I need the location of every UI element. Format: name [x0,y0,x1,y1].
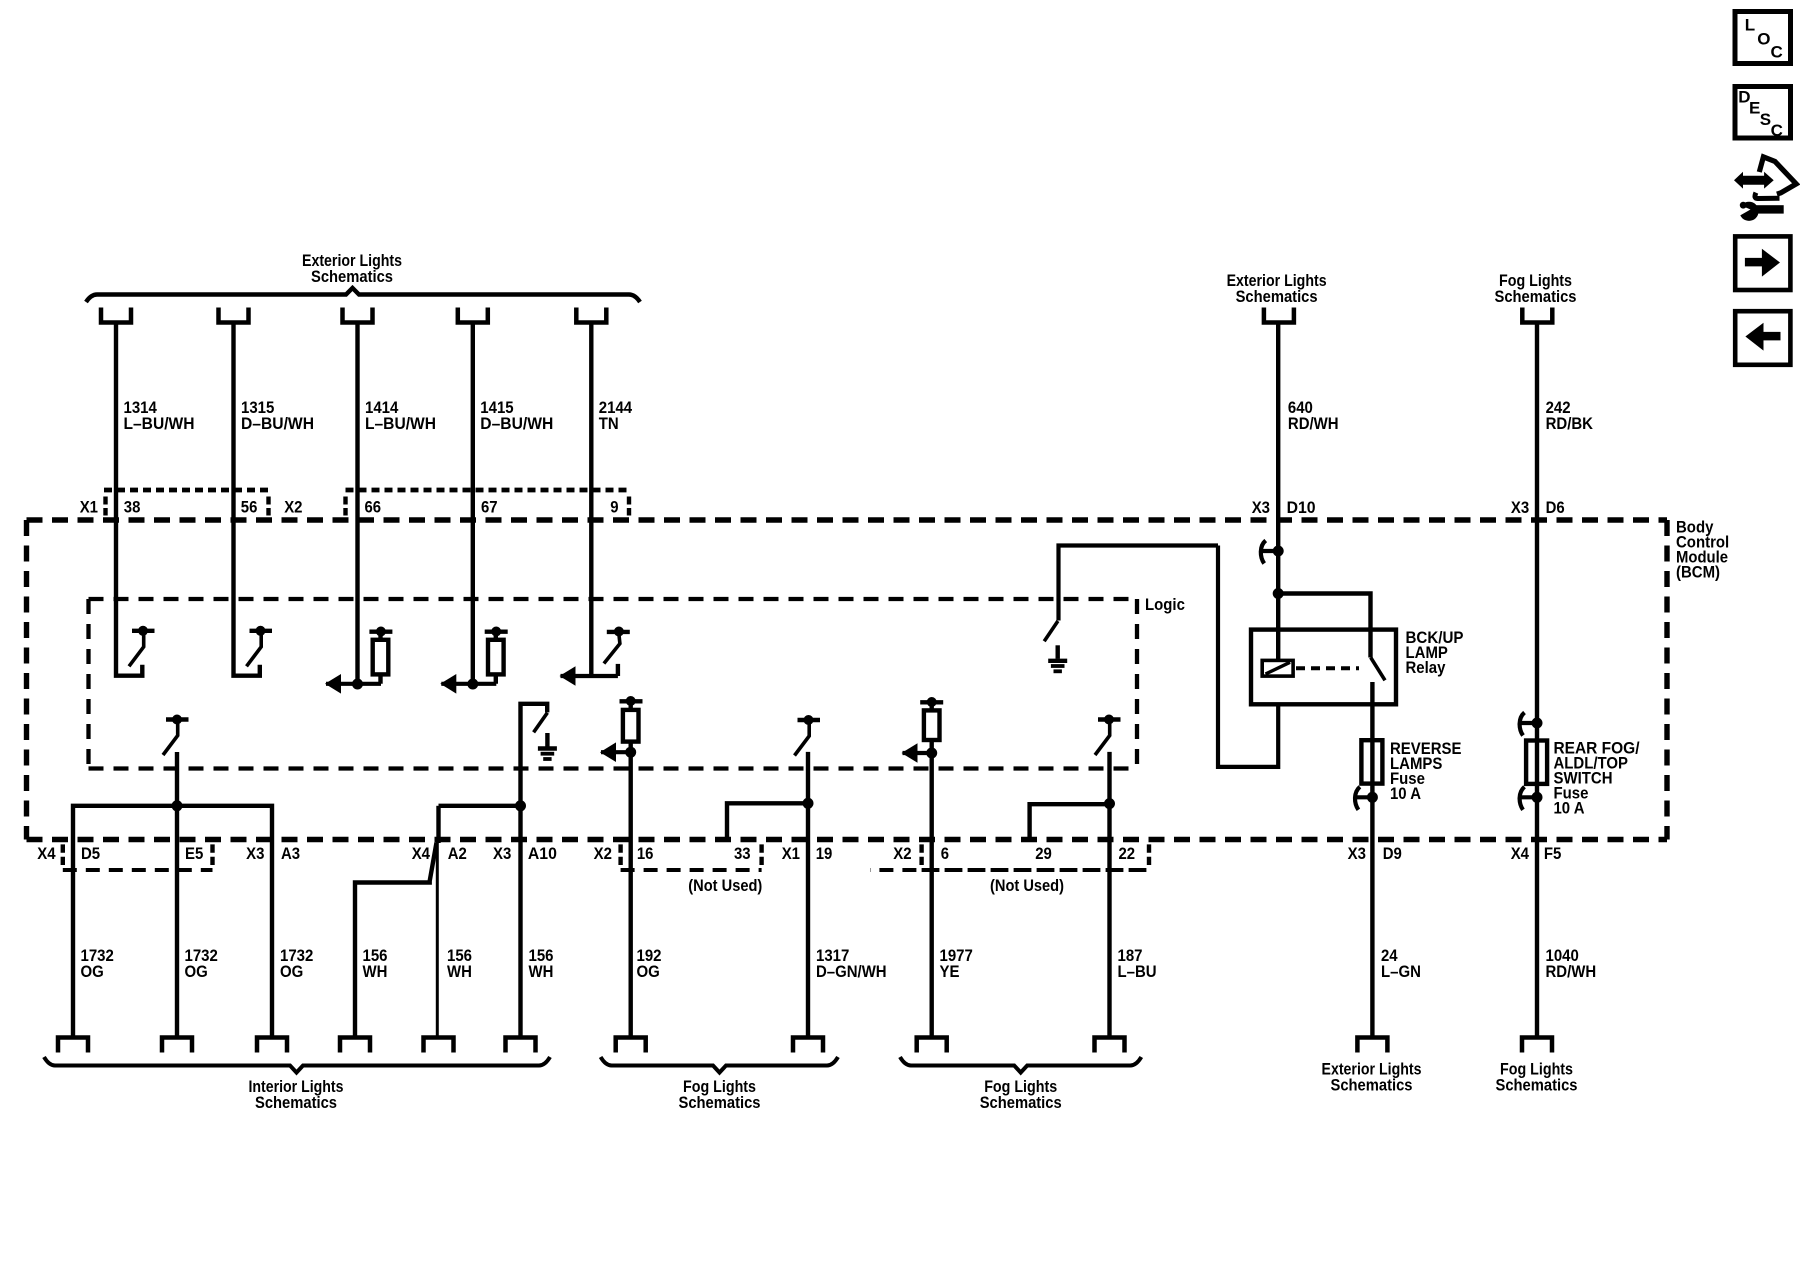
connector Fog A1 [616,1038,646,1053]
relay K1 switch blade [1371,658,1385,705]
svg-text:56: 56 [241,498,258,517]
svg-text:D5: D5 [81,844,100,863]
connector Fog B1 [917,1038,947,1053]
svg-text:D–BU/WH: D–BU/WH [241,414,314,433]
pin labels bottom row [37,844,1135,863]
label 24 L-GN [1381,946,1421,981]
switch S6 (pin 22) [1095,715,1121,755]
svg-text:WH: WH [529,962,554,981]
connector X2 dotted box (pins 66,67,9) [346,490,630,516]
svg-text:L–BU/WH: L–BU/WH [124,414,195,433]
wire relay coil return loop [1218,546,1278,767]
connector pin 242 [1522,308,1552,323]
label 1314 L-BU/WH [124,398,195,433]
wire 640 RD/WH [1276,325,1280,661]
svg-text:Schematics: Schematics [980,1093,1062,1112]
svg-text:X2: X2 [893,844,911,863]
relay K1 BCK/UP LAMP box [1251,630,1396,705]
svg-text:Relay: Relay [1406,658,1446,677]
relay K1 coil [1262,660,1293,676]
svg-text:X3: X3 [1511,498,1529,517]
label 1040 RD/WH [1546,946,1597,981]
svg-text:(Not Used): (Not Used) [688,876,762,895]
svg-text:66: 66 [365,498,382,517]
Body Control Module dashed box [27,520,1668,840]
svg-text:X4: X4 [412,844,431,863]
wire bus D5 to A3 [73,806,272,1038]
label Body Control Module (BCM) [1676,518,1729,582]
svg-text:Schematics: Schematics [1331,1076,1413,1095]
Logic dashed box [89,599,1138,769]
pin labels X4 F5 [1511,844,1562,863]
wire 2144 TN [589,325,593,677]
icon LOC box [1735,12,1791,64]
brace top Exterior Lights [86,288,640,302]
resistor R1 with arrow (pin 66) [325,627,392,694]
wire pin 22 down to connector [1107,752,1111,1038]
connector Interior 2 [162,1038,192,1053]
wire pin A2 down [436,806,440,843]
svg-text:S: S [1760,110,1771,129]
wire jog A2 to 156 WH [355,843,437,1038]
svg-text:6: 6 [941,844,949,863]
inline connector C2 [1353,787,1377,810]
label 156 WH [363,946,388,981]
wire pin A10 with switch to ground [521,704,548,1038]
label REVERSE LAMPS Fuse 10 A [1390,739,1462,803]
connector pin 1315 [219,308,249,323]
wire relay to fuse [1370,704,1374,740]
svg-text:O: O [1757,30,1770,49]
svg-text:WH: WH [447,962,472,981]
connector X2 dotted box (pins 6,29,22) [870,844,1149,870]
svg-text:YE: YE [940,962,960,981]
label 1732 OG [81,946,114,981]
label Fog Lights Schematics 1 [679,1077,761,1112]
splice node pin 22 / pin 29 [1105,799,1115,809]
svg-text:22: 22 [1119,844,1136,863]
svg-text:X1: X1 [782,844,800,863]
label Fog Lights Schematics (bottom right) [1496,1060,1578,1095]
connector pin 2144 [576,308,606,323]
svg-text:L–BU/WH: L–BU/WH [365,414,436,433]
svg-text:TN: TN [599,414,619,433]
svg-text:A3: A3 [281,844,300,863]
splice node E5 bus [172,801,182,811]
svg-text:Logic: Logic [1145,595,1185,614]
pin labels X3 D9 [1348,844,1402,863]
icon right arrow box [1735,236,1790,290]
svg-text:29: 29 [1035,844,1052,863]
label 640 RD/WH [1288,398,1339,433]
switch S4 (pin E5) [163,715,189,755]
switch S1 (pin 38) [129,626,155,666]
svg-text:OG: OG [81,962,104,981]
wire stub pin 33 elbow [727,803,808,840]
svg-text:D9: D9 [1383,844,1402,863]
connector pin 1414 [343,308,373,323]
svg-text:A10: A10 [528,844,557,863]
svg-text:E5: E5 [185,844,203,863]
ground G2 (logic) [1048,645,1067,671]
label 1732 OG [185,946,218,981]
label Fog Lights Schematics 2 [980,1077,1062,1112]
svg-text:X3: X3 [1252,498,1270,517]
svg-text:(BCM): (BCM) [1676,563,1720,582]
svg-text:F5: F5 [1544,844,1562,863]
svg-text:Schematics: Schematics [679,1093,761,1112]
svg-text:9: 9 [610,498,618,517]
label 156 WH [447,946,472,981]
svg-text:C: C [1771,121,1783,140]
label BCK/UP LAMP Relay [1406,628,1464,677]
label 242 RD/BK [1546,398,1594,433]
switch S8 to ground G2 (BCM internal, from relay feed) [1044,546,1218,642]
connector pin 1314 [101,308,131,323]
title Fog Lights Schematics (top right) [1495,271,1577,306]
svg-text:16: 16 [637,844,654,863]
connector Interior 4 [340,1038,370,1053]
svg-text:L–GN: L–GN [1381,962,1421,981]
label Exterior Lights Schematics (bottom) [1322,1060,1422,1095]
svg-text:Schematics: Schematics [1496,1076,1578,1095]
wire to relay switch [1278,594,1370,658]
switch S3 with arrow (pin 9) [560,627,630,686]
label 1317 D-GN/WH [816,946,887,981]
wire 1314 L-BU/WH with switch return [116,325,142,676]
svg-text:D6: D6 [1546,498,1565,517]
connector Interior 3 [257,1038,287,1053]
svg-text:X4: X4 [37,844,56,863]
svg-text:X4: X4 [1511,844,1530,863]
wire stub pin 29 elbow [1030,804,1110,840]
brace bottom Interior Lights [44,1057,550,1073]
connector Fog B2 [1095,1038,1125,1053]
svg-text:Schematics: Schematics [1236,287,1318,306]
icon DESC box [1735,87,1791,140]
wire pin 6 down to connector [930,753,934,1038]
inline connector C1 [1259,541,1283,564]
splice node relay feed [1273,589,1283,599]
ground G1 (logic) [538,733,557,759]
svg-text:RD/WH: RD/WH [1546,962,1597,981]
svg-text:A2: A2 [448,844,467,863]
inline connector C3 [1518,713,1542,736]
splice node A10 bus [516,801,526,811]
label 1315 D-BU/WH [241,398,314,433]
switch S5 (pin 19) [795,716,821,756]
connector X1 dotted box (pins 38,56) [104,490,269,516]
label 1732 OG [280,946,313,981]
connector Fog A2 [793,1038,823,1053]
label 1415 D-BU/WH [480,398,553,433]
svg-text:WH: WH [363,962,388,981]
splice node pin 19 / pin 33 [803,798,813,808]
switch S7 blade (A10 to ground) [534,713,548,733]
connector Interior 5 [424,1038,454,1053]
brace bottom Fog Lights 1 [601,1057,838,1073]
wire 242 RD/BK full length [1535,325,1539,1038]
label 156 WH [529,946,554,981]
wire 1414 L-BU/WH [355,325,359,685]
label 2144 TN [599,398,633,433]
resistor R4 with arrow (pin 6) [902,698,944,763]
svg-text:Schematics: Schematics [255,1093,337,1112]
wire 1415 D-BU/WH [471,325,475,685]
wire bus A2 to A10 [439,804,521,808]
svg-text:X2: X2 [594,844,612,863]
connector Interior 1 [58,1038,88,1053]
svg-text:(Not Used): (Not Used) [990,876,1064,895]
svg-text:RD/BK: RD/BK [1546,414,1594,433]
wire pin 16 down to connector [629,752,633,1037]
svg-text:10 A: 10 A [1554,799,1585,818]
svg-text:D10: D10 [1287,498,1316,517]
relay K1 dashed link [1296,666,1359,670]
brace bottom Fog Lights 2 [900,1057,1141,1073]
svg-text:C: C [1771,43,1783,62]
resistor R3 with arrow (pin 16) [600,697,643,763]
svg-text:10 A: 10 A [1390,784,1421,803]
icon arrows and wrench [1734,157,1796,221]
svg-text:Schematics: Schematics [311,267,393,286]
svg-text:OG: OG [637,962,660,981]
label 1977 YE [940,946,973,981]
title Exterior Lights Schematics (top left) [302,251,402,286]
label 192 OG [637,946,662,981]
label 1414 L-BU/WH [365,398,436,433]
svg-text:D–BU/WH: D–BU/WH [480,414,553,433]
inline connector C4 [1518,787,1542,810]
svg-text:L: L [1745,16,1755,35]
pin labels X1 38 56 X2 66 67 9 [80,498,619,517]
svg-text:19: 19 [816,844,833,863]
switch S2 (pin 56) [247,626,273,666]
fuse F2 REAR FOG 10A [1526,741,1547,784]
fuse F1 REVERSE LAMPS 10A [1361,740,1382,783]
label REAR FOG/ALDL/TOP SWITCH Fuse 10 A [1554,739,1640,818]
label Interior Lights Schematics [249,1077,344,1112]
wire pin 19 down to connector [806,752,810,1038]
connector X4 dotted box (pins D5,E5) [63,844,213,870]
connector pin 640 [1264,308,1294,323]
wire fuse F1 to X3 D9 [1370,740,1374,1038]
svg-text:OG: OG [280,962,303,981]
svg-text:OG: OG [185,962,208,981]
connector Exterior Lights (bottom right) [1357,1038,1387,1053]
svg-text:E: E [1749,99,1760,118]
wire 1315 D-BU/WH with switch return [234,325,260,676]
resistor R2 with arrow (pin 67) [440,627,507,694]
svg-text:Schematics: Schematics [1495,287,1577,306]
title Exterior Lights Schematics (top right) [1227,271,1327,306]
svg-text:L–BU: L–BU [1118,962,1157,981]
pin labels X3 D6 [1511,498,1565,517]
svg-text:X2: X2 [284,498,302,517]
icon left arrow box [1735,311,1790,365]
connector Interior 6 [506,1038,536,1053]
svg-text:38: 38 [124,498,141,517]
pin labels X3 D10 [1252,498,1316,517]
svg-text:67: 67 [481,498,498,517]
wire pin E5 down to splice and connector [175,752,179,1038]
svg-text:D–GN/WH: D–GN/WH [816,962,887,981]
connector X2 dotted box (pins 16,33) [621,844,762,870]
svg-text:X1: X1 [80,498,98,517]
svg-text:X3: X3 [246,844,264,863]
connector Fog Lights (bottom right) [1522,1038,1552,1053]
svg-text:X3: X3 [1348,844,1366,863]
label 187 L-BU [1118,946,1157,981]
connector pin 1415 [458,308,488,323]
svg-text:X3: X3 [493,844,511,863]
svg-text:RD/WH: RD/WH [1288,414,1339,433]
svg-text:33: 33 [734,844,751,863]
